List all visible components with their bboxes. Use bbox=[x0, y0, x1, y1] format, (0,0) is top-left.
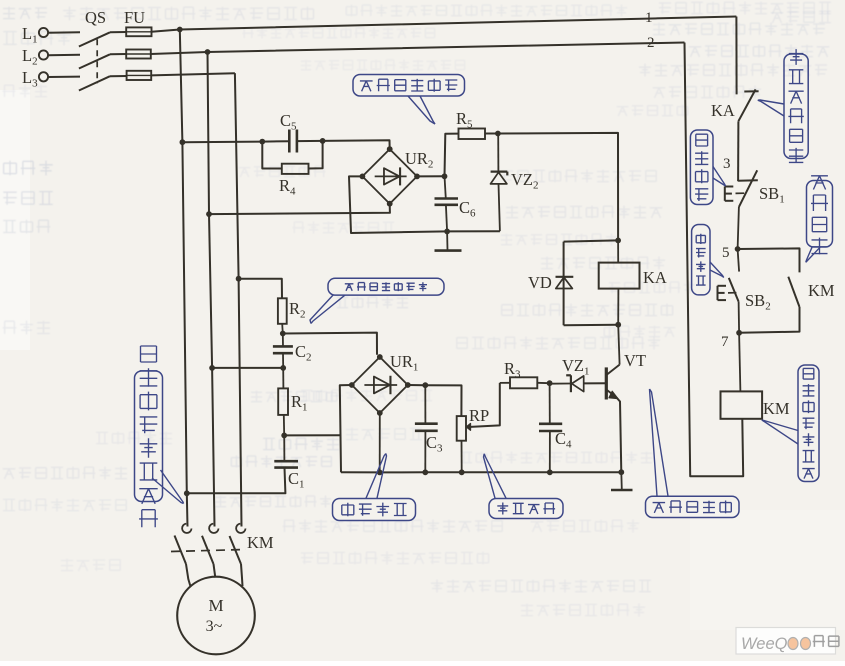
wire to node 3 bbox=[737, 121, 739, 181]
label delay circuit bbox=[489, 499, 563, 519]
wire L1 phase vertical bbox=[180, 30, 188, 527]
resistor R1 bbox=[282, 368, 284, 389]
wire motor leads bbox=[186, 564, 191, 587]
label measuring circuit bbox=[333, 499, 416, 521]
node junction bbox=[320, 138, 326, 144]
node 7 bbox=[736, 330, 742, 336]
wire bbox=[48, 31, 80, 33]
node L1 terminal bbox=[39, 28, 48, 37]
capacitor C5 bbox=[288, 130, 291, 153]
node junction L2-line bbox=[205, 49, 211, 55]
svg-text:M: M bbox=[208, 596, 223, 615]
capacitor C2 bbox=[282, 334, 284, 347]
node junction C3 top bbox=[422, 382, 428, 388]
ground bbox=[446, 231, 448, 250]
wire C5 top rail bbox=[182, 141, 289, 142]
wire bottom rail bbox=[341, 471, 621, 473]
wire to UR1 top bbox=[283, 333, 377, 355]
wire base bbox=[584, 382, 607, 384]
wire bbox=[110, 31, 126, 33]
svg-text:3: 3 bbox=[723, 156, 731, 172]
wire VD branch left bbox=[563, 242, 565, 326]
svg-text:KA: KA bbox=[711, 101, 735, 120]
node junction bbox=[422, 469, 428, 475]
wire C2 tap to L2 bbox=[212, 367, 283, 369]
wire branch 1 down bbox=[735, 17, 737, 95]
capacitor C6 bbox=[445, 176, 446, 198]
wire bbox=[48, 76, 80, 78]
node L3 terminal bbox=[39, 72, 48, 81]
capacitor C3 bbox=[424, 385, 426, 424]
svg-text:7: 7 bbox=[721, 334, 729, 350]
label DC regulated supply bbox=[353, 75, 465, 97]
node junction bbox=[377, 470, 383, 476]
wire L2 phase vertical bbox=[208, 52, 215, 527]
zener diode VZ1 bbox=[570, 375, 572, 392]
motor M bbox=[177, 577, 255, 655]
node junction bbox=[459, 469, 465, 475]
button SB1 stop bbox=[738, 179, 758, 181]
svg-text:KM: KM bbox=[247, 533, 274, 552]
wire RP wiper bbox=[471, 383, 500, 427]
svg-text:VD: VD bbox=[528, 273, 552, 292]
rectifier UR1 bbox=[352, 357, 408, 413]
switch QS pole 2 bbox=[79, 54, 110, 68]
wire line 2 bbox=[151, 43, 685, 55]
node junction R1-C1 bbox=[281, 433, 287, 439]
svg-text:VT: VT bbox=[624, 351, 646, 370]
contact KM main pole 2 bbox=[209, 524, 218, 533]
transistor VT bbox=[618, 325, 619, 365]
node junction R2-C2 bbox=[280, 331, 286, 337]
label negative-seq filter bbox=[328, 278, 444, 295]
wire to R5 bbox=[445, 134, 459, 177]
fuse FU1 bbox=[126, 27, 151, 36]
label stop button bbox=[690, 130, 713, 205]
node junction C1 to L1 bbox=[184, 490, 190, 496]
node junction L1-line bbox=[177, 27, 183, 33]
label phase-failure contact bbox=[784, 54, 808, 159]
node junction on L2 bbox=[209, 365, 215, 371]
svg-text:5: 5 bbox=[722, 245, 730, 261]
svg-text:KM: KM bbox=[763, 399, 790, 418]
wire UR1 bottom arm bbox=[379, 413, 381, 472]
node junction bbox=[180, 139, 186, 145]
contact KM main pole 1 bbox=[182, 524, 191, 533]
wire bbox=[48, 54, 80, 57]
button SB2 start bbox=[738, 249, 740, 272]
wire UR1 right arm bbox=[408, 384, 426, 386]
contact KA break bbox=[744, 90, 758, 92]
label KM coil bbox=[798, 365, 819, 482]
node junction bbox=[442, 173, 448, 179]
label amplitude detect output bbox=[646, 496, 740, 517]
wire UR2 bottom arm bbox=[209, 204, 390, 215]
node junction bbox=[259, 139, 265, 145]
ground VT emitter bbox=[618, 469, 624, 475]
svg-text:WeeQ: WeeQ bbox=[741, 635, 788, 653]
node junction KA top bbox=[615, 238, 621, 244]
wire negative rail bbox=[447, 230, 500, 232]
node junction R5-VZ2 bbox=[495, 131, 501, 137]
relay coil KM bbox=[721, 391, 763, 418]
rectifier UR2 bbox=[362, 149, 417, 204]
wire UR2 left arm bbox=[349, 176, 447, 233]
svg-text:FU: FU bbox=[124, 8, 145, 27]
label KM main contacts bbox=[135, 371, 163, 502]
svg-text:QS: QS bbox=[85, 8, 106, 27]
node L2 terminal bbox=[39, 50, 48, 59]
resistor R2 bbox=[278, 298, 287, 324]
contact KM linkage bbox=[171, 550, 246, 552]
fuse FU3 bbox=[127, 71, 152, 80]
wire line 1 bbox=[152, 17, 737, 32]
wire to KM coil bbox=[739, 333, 740, 392]
node junction L3 tap bbox=[236, 276, 242, 282]
node junction R3-VZ1-C4 bbox=[547, 380, 553, 386]
relay coil KA bbox=[617, 240, 619, 262]
contact KM main pole 3 bbox=[236, 524, 245, 533]
potentiometer RP bbox=[457, 416, 466, 441]
switch QS pole 3 bbox=[79, 76, 110, 90]
capacitor C1 bbox=[283, 435, 285, 461]
wire R2 top bbox=[239, 279, 282, 299]
svg-text:RP: RP bbox=[469, 406, 489, 425]
capacitor C4 bbox=[549, 383, 551, 424]
wire positive bus bbox=[498, 133, 618, 241]
wire bbox=[110, 53, 126, 55]
switch QS pole 1 bbox=[79, 32, 110, 46]
wire UR1 left arm bbox=[340, 385, 352, 472]
wire line 3 bbox=[151, 73, 235, 75]
wire VD branch top bbox=[564, 240, 619, 241]
wire KM coil bottom bbox=[685, 43, 744, 477]
svg-text:3~: 3~ bbox=[206, 618, 223, 635]
wire VD branch bottom bbox=[564, 324, 619, 327]
resistor R4 bbox=[262, 142, 282, 169]
node 5 bbox=[735, 246, 741, 252]
label start button bbox=[692, 225, 710, 295]
zener diode VZ2 bbox=[497, 134, 499, 172]
diode VD bbox=[556, 276, 574, 278]
fuse FU2 bbox=[126, 50, 151, 59]
watermark WeeQoo bbox=[736, 628, 836, 655]
contact KM self-hold bbox=[738, 248, 800, 272]
node junction C2-R1 bbox=[280, 365, 286, 371]
svg-text:1: 1 bbox=[645, 10, 653, 26]
node junction C6 gnd bbox=[444, 229, 450, 235]
wire L3 phase vertical bbox=[235, 73, 242, 526]
svg-text:KA: KA bbox=[643, 268, 667, 287]
wire to RP bbox=[425, 385, 461, 416]
resistor R3 bbox=[500, 382, 510, 384]
label self-hold contact bbox=[807, 181, 833, 248]
svg-text:2: 2 bbox=[647, 35, 655, 51]
wire R1 tap bbox=[284, 434, 340, 436]
svg-text:KM: KM bbox=[808, 281, 835, 300]
resistor R5 bbox=[459, 129, 486, 140]
node junction KA bottom bbox=[615, 322, 621, 328]
wire R5 right bbox=[485, 133, 498, 135]
node junction bbox=[547, 469, 553, 475]
switch QS linkage bbox=[96, 39, 98, 83]
wire UR2 right arm bbox=[417, 175, 445, 177]
node junction L2 bbox=[206, 211, 212, 217]
wire bbox=[110, 75, 127, 77]
